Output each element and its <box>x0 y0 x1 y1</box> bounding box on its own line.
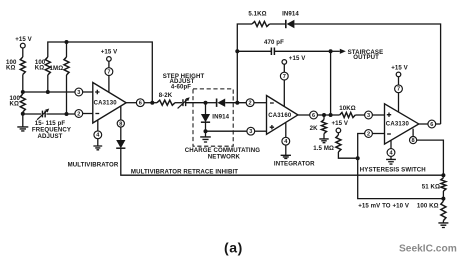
node junction at ground / pin2 line <box>21 112 25 116</box>
wire pin6 to 10K <box>318 114 340 116</box>
junction dot 470pF/output <box>329 49 333 53</box>
wire pin3 to U2 <box>255 130 267 132</box>
junction dot feedback/signal <box>235 101 239 105</box>
svg-text:+15 mV TO +10 V: +15 mV TO +10 V <box>358 203 410 210</box>
resistor 10K <box>340 112 356 117</box>
pin 8 circle U3 <box>410 137 417 144</box>
pin 4 circle U3 <box>387 149 395 157</box>
svg-text:8-2K: 8-2K <box>159 92 173 99</box>
wire pin2 line right segment <box>46 113 75 115</box>
plus input marker U2 <box>270 125 274 129</box>
pin 4 circle U2 <box>282 137 290 145</box>
plus input marker U3 <box>387 113 391 117</box>
junction dot D-network bottom <box>204 129 208 133</box>
wire node A to pin 3 <box>23 91 75 93</box>
junction dot feedback/470pF <box>235 49 239 53</box>
svg-text:5.1KΩ: 5.1KΩ <box>248 11 266 18</box>
wire pin7 stem U2 <box>283 80 285 107</box>
svg-text:2K: 2K <box>310 125 318 132</box>
junction dot inhibit/divider <box>441 173 445 177</box>
wire pin3 to U1 <box>83 91 93 93</box>
ground (charge network) <box>200 137 211 142</box>
svg-text:1.5 MΩ: 1.5 MΩ <box>313 145 334 152</box>
pin 4 circle U1 <box>94 131 102 139</box>
variable capacitor 15-115pF frequency adjust <box>42 111 45 118</box>
pin 6 circle U3 <box>428 120 436 128</box>
wire pin7 stem U3 <box>398 93 400 113</box>
svg-text:(a): (a) <box>224 240 243 256</box>
wire pin2 net up <box>358 134 365 159</box>
wire pin4 to ground U2 <box>285 145 287 155</box>
wire pin2 to U3 <box>372 133 384 135</box>
resistor 8.2K <box>157 100 175 105</box>
wire R to ground junction <box>22 112 24 127</box>
power terminal +15V (1.5M) <box>336 128 341 133</box>
svg-text:7: 7 <box>283 74 286 80</box>
svg-text:470 pF: 470 pF <box>264 39 284 46</box>
junction dot pin2 net <box>356 156 360 160</box>
resistor R 100K (lower left, node A to ground) <box>20 94 25 112</box>
ground (U3 pin4) <box>386 159 396 164</box>
ground (2K) <box>319 139 328 143</box>
pin 3 circle U1 <box>75 88 83 96</box>
svg-text:2: 2 <box>367 131 370 137</box>
resistor 100K (divider) <box>442 199 444 202</box>
svg-text:ADJUST: ADJUST <box>38 133 63 140</box>
svg-text:INTEGRATOR: INTEGRATOR <box>274 161 315 168</box>
svg-text:8: 8 <box>412 138 415 144</box>
svg-text:CA3130: CA3130 <box>94 101 118 107</box>
wire terminal to pin7 U2 <box>283 64 285 72</box>
wire pin2 to U1 <box>83 113 93 115</box>
junction dot 2K tap <box>322 113 326 117</box>
resistor 1.5M (bias to pin2 U3) <box>337 133 339 135</box>
svg-text:3: 3 <box>367 113 370 119</box>
pin 2 circle U3 <box>365 130 373 138</box>
wire U2 apex to pin6 <box>298 114 310 116</box>
svg-text:MULTIVIBRATOR RETRACE INHIBI: MULTIVIBRATOR RETRACE INHIBIT <box>131 169 238 176</box>
wire to network ground <box>205 131 207 136</box>
wire pin4 to ground U3 <box>390 156 392 159</box>
resistor 2K (output load) <box>323 115 325 120</box>
svg-text:IN914: IN914 <box>282 11 299 18</box>
svg-text:6: 6 <box>139 101 142 107</box>
wire pin3 to U3 <box>372 114 384 116</box>
wire terminal to pin7 U3 <box>398 77 400 85</box>
pin 2 circle U1 <box>75 110 83 118</box>
pin 8 circle U1 <box>117 120 124 127</box>
svg-text:51 KΩ: 51 KΩ <box>422 184 440 191</box>
wire pin2 to U2 <box>254 102 267 104</box>
svg-text:NETWORK: NETWORK <box>208 153 241 160</box>
svg-text:+15 V: +15 V <box>101 49 118 56</box>
svg-text:KΩ: KΩ <box>10 100 20 107</box>
wire pin4 stem U2 <box>285 123 287 138</box>
pin 7 circle U1 <box>105 68 113 76</box>
pin 7 circle U2 <box>280 72 288 80</box>
wire pin4 stem U3 <box>390 147 392 150</box>
svg-text:HYSTERESIS SWITCH: HYSTERESIS SWITCH <box>360 167 426 174</box>
svg-text:8: 8 <box>119 121 122 127</box>
minus input marker U3 <box>387 133 391 135</box>
svg-text:10KΩ: 10KΩ <box>339 105 355 112</box>
svg-text:2: 2 <box>77 111 80 117</box>
op-amp U3 CA3130 hysteresis switch <box>385 104 419 144</box>
wire 100K to node A <box>47 75 49 92</box>
plus input marker U1 <box>95 90 99 94</box>
op-amp U1 CA3130 multivibrator <box>93 83 126 124</box>
svg-text:MULTIVIBRATOR: MULTIVIBRATOR <box>68 162 119 169</box>
svg-text:KΩ: KΩ <box>35 64 45 71</box>
svg-text:+15 V: +15 V <box>289 55 306 62</box>
junction dot 470pF return <box>329 113 333 117</box>
wire pin7 stem U1 <box>108 76 110 93</box>
wire R1 to node A <box>22 75 24 93</box>
variable capacitor 4-60pF step height adjust <box>183 99 186 106</box>
pin 6 circle U2 <box>310 111 318 119</box>
wire 10K to pin3 U3 <box>355 114 364 116</box>
svg-text:6: 6 <box>312 113 315 119</box>
op-amp U2 CA3160 integrator <box>267 96 298 135</box>
ground (U2 pin4) <box>281 155 291 158</box>
minus input marker U1 <box>95 113 99 115</box>
wire U3 apex to pin6 <box>419 123 428 125</box>
resistor 5.1K <box>252 21 270 26</box>
ground (divider) <box>438 223 448 228</box>
svg-text:3: 3 <box>77 90 80 96</box>
wire pin4 stem U1 <box>97 120 99 131</box>
ground (left bias divider) <box>17 127 28 131</box>
pin 6 circle U1 <box>136 99 144 107</box>
wire varcap to diode node <box>186 102 206 104</box>
resistor R 1M (feedback to pin2) <box>64 57 69 75</box>
pin 3 circle U2 <box>247 127 255 135</box>
resistor R 100K (upper left, +15V to pin3 node) <box>20 57 25 75</box>
svg-text:4-60pF: 4-60pF <box>171 83 191 90</box>
diode retrace inhibit (pointing down) <box>116 140 125 148</box>
svg-text:7: 7 <box>397 87 400 93</box>
wire diode to right vertical <box>294 24 440 124</box>
wire pin6 to right vertical <box>436 123 441 125</box>
wire 1M top <box>66 42 68 57</box>
svg-text:3: 3 <box>249 129 252 135</box>
wire hysteresis top y42 <box>48 42 153 103</box>
svg-text:6: 6 <box>430 122 433 128</box>
svg-text:7: 7 <box>107 70 110 76</box>
power terminal +15V U2 <box>282 60 287 65</box>
diode series (pointing left) in network <box>206 102 217 104</box>
junction dot node A (mid resistor) <box>46 90 50 94</box>
wire network to pin3 U2 <box>206 130 247 132</box>
wire U1 apex to pin6 <box>126 102 136 104</box>
svg-text:+15 V: +15 V <box>391 65 408 72</box>
svg-text:OUTPUT: OUTPUT <box>353 54 379 61</box>
wire 8.2K to varcap <box>175 102 182 104</box>
power terminal +15V U1 <box>107 57 112 62</box>
capacitor 470pF <box>271 48 274 56</box>
wire 1M bottom to pin2 line <box>66 75 68 114</box>
wire feedback left vertical x237 <box>237 24 252 103</box>
svg-text:2: 2 <box>249 101 252 107</box>
svg-text:KΩ: KΩ <box>6 64 16 71</box>
junction dot top wire / 1M <box>65 40 69 44</box>
svg-text:100 KΩ: 100 KΩ <box>417 203 439 210</box>
wire pin6 to node B <box>144 102 157 104</box>
wire +15V terminal to R1 <box>22 48 24 57</box>
wire 5.1K to diode <box>270 23 286 25</box>
wire pin4 to ground U1 <box>97 139 99 146</box>
wire terminal to pin7 U1 <box>108 61 110 67</box>
svg-text:1MΩ: 1MΩ <box>50 65 64 72</box>
pin 2 circle U2 <box>246 99 254 107</box>
wire 470pF down to output node <box>330 51 332 115</box>
wire pin2 line left segment <box>23 113 41 115</box>
resistor R 100K (hysteresis feedback) <box>45 57 50 75</box>
wire pin2 net down to divider <box>358 158 444 198</box>
svg-text:+15 V: +15 V <box>331 120 348 127</box>
power terminal +15V U3 <box>396 72 401 77</box>
svg-text:CA3130: CA3130 <box>386 122 410 128</box>
svg-text:CA3160: CA3160 <box>268 113 292 119</box>
node A junction (pin3 line left) <box>21 90 25 94</box>
junction dot D-network top <box>204 101 208 105</box>
svg-text:SeekIC.com: SeekIC.com <box>399 244 457 255</box>
junction dot 1M / pin2 line <box>65 112 69 116</box>
diode 1N914 shunt (pointing down) <box>205 103 207 114</box>
wire pin8 to diode <box>120 127 122 140</box>
pin 7 circle U3 <box>395 85 403 93</box>
wire diode to inhibit line <box>121 148 444 175</box>
wire 470pF line right <box>274 50 330 52</box>
svg-text:+15 V: +15 V <box>15 36 32 43</box>
diode 1N914 feedback (pointing left) <box>285 20 287 28</box>
wire 470pF line left <box>237 50 271 52</box>
junction dot node B (output) <box>150 101 154 105</box>
staircase output arrow <box>331 50 340 52</box>
junction dot divider mid <box>441 197 445 201</box>
svg-text:IN914: IN914 <box>212 114 229 121</box>
pin 3 circle U3 <box>365 111 373 119</box>
ground (U1 pin4) <box>93 146 102 150</box>
minus input marker U2 <box>270 102 274 104</box>
resistor 51K <box>442 175 444 178</box>
power terminal +15V (multivibrator bias) <box>20 43 25 48</box>
wire pin8 to divider top <box>417 140 444 175</box>
wire pin8 stem U1 <box>120 107 122 120</box>
dashed box charge commutating network <box>193 89 233 146</box>
wire pin8 stem U3 <box>412 129 414 137</box>
